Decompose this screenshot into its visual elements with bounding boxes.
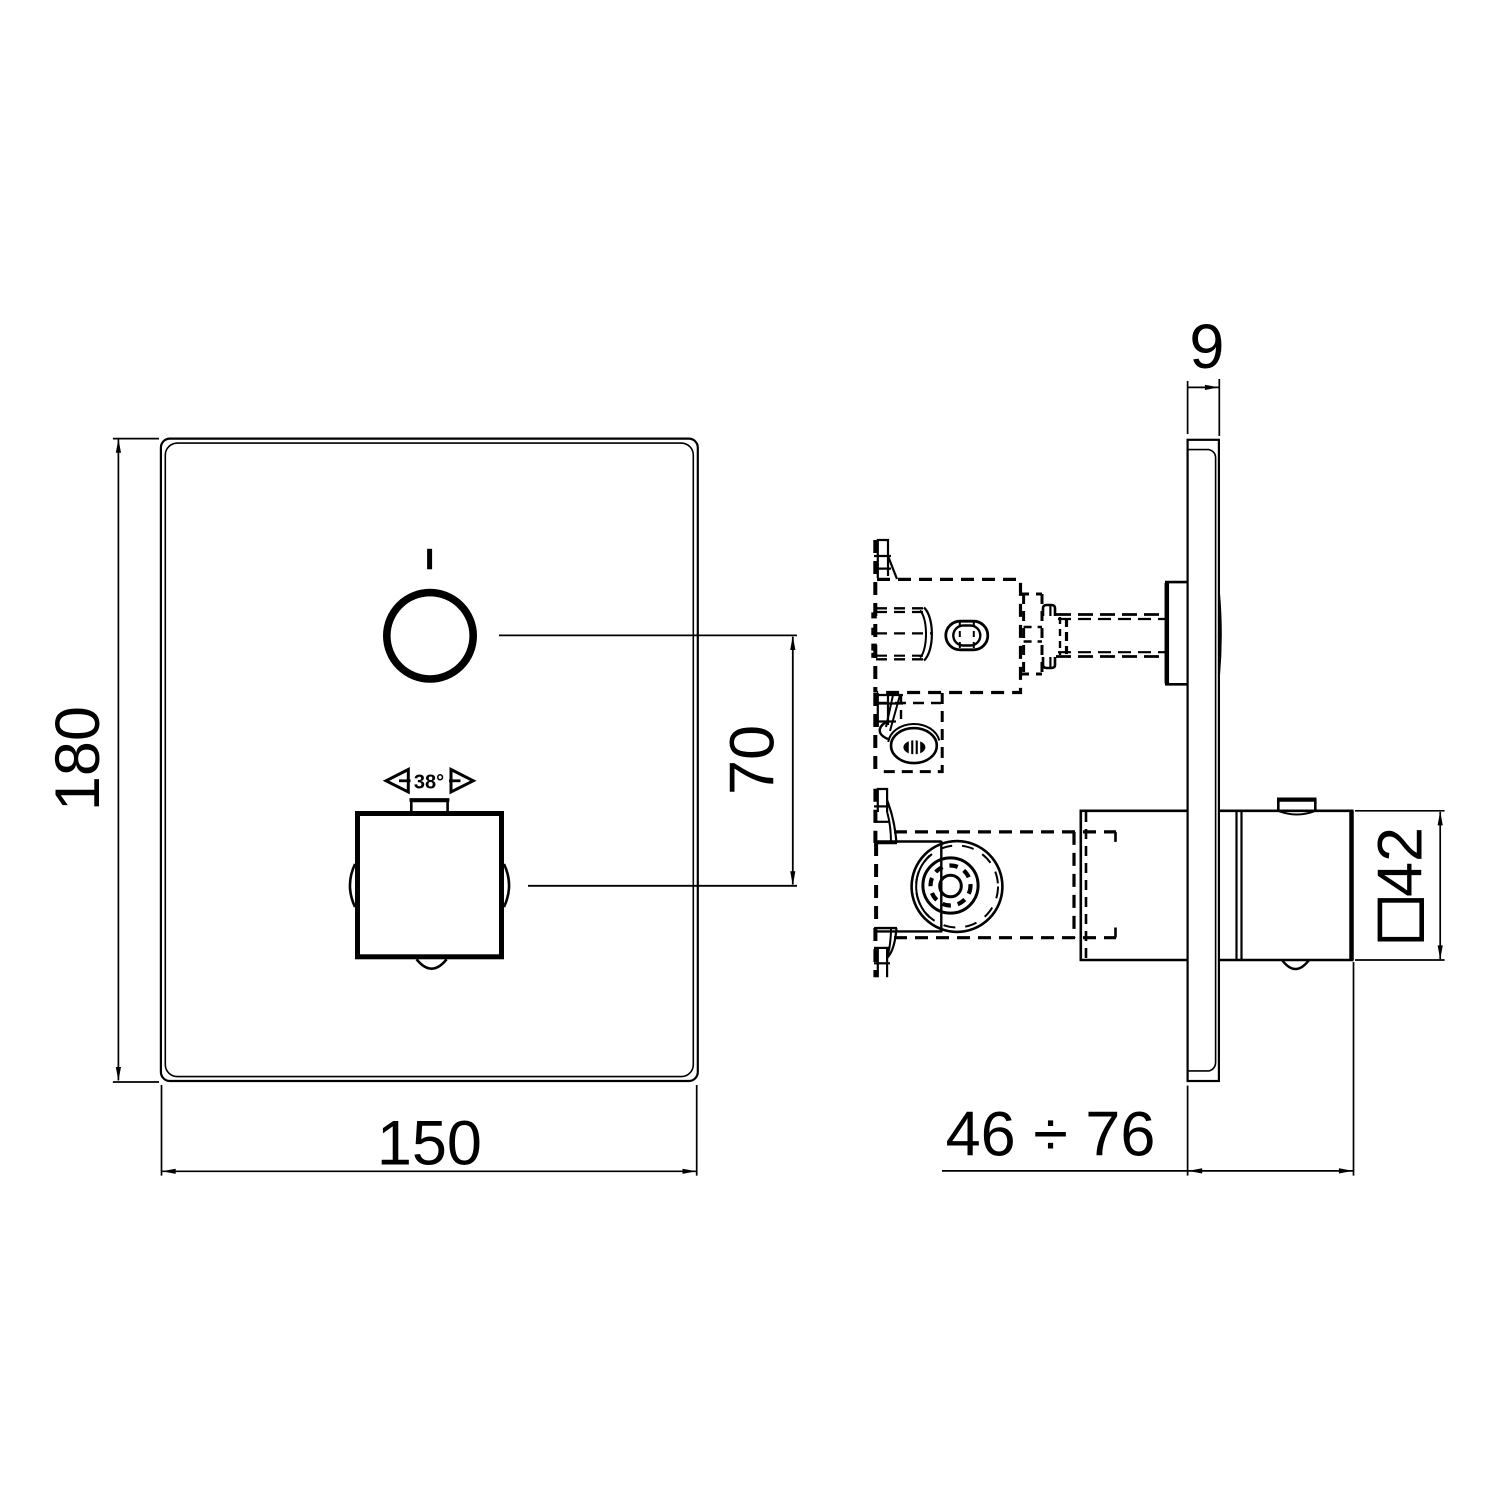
cylinder dome arcs (924, 608, 932, 661)
elbow outlet port (891, 728, 937, 763)
label square42 (1380, 900, 1422, 939)
dimension 180 extension top (113, 438, 159, 440)
svg-text:70: 70 (718, 725, 788, 795)
square knob top tab (411, 801, 447, 811)
wall plate edge inner details (1188, 450, 1216, 1071)
dimension line 150 (162, 1170, 696, 1172)
cartridge housing solid lines (877, 840, 941, 842)
square knob (temperature handle) (358, 814, 502, 957)
handle base double lines (1235, 811, 1237, 960)
upper mounting bracket dashed spine (873, 540, 877, 693)
lower bracket top tab (878, 789, 887, 812)
elbow bracket tab rungs (878, 693, 888, 727)
dimension 42 extension lines (1355, 810, 1445, 812)
svg-text:180: 180 (43, 706, 113, 811)
dimension line 42 (1439, 812, 1441, 959)
38° left arrow (386, 770, 408, 793)
dimension 180 extension bottom (113, 1081, 159, 1083)
dimension line 46-76 (942, 1170, 1354, 1172)
lower bracket dashed spine upper part (873, 789, 877, 843)
square knob bottom bulge (417, 959, 447, 968)
front plate outer outline (161, 439, 698, 1081)
fixing screws edge-on (black blobs) (871, 612, 877, 618)
outlet elbow below upper body (873, 693, 877, 772)
handle safety button tab (1278, 801, 1315, 811)
lower valve body hidden outline (894, 830, 1116, 833)
handle bottom screw bulge (1282, 960, 1309, 969)
lower bracket bottom (875, 927, 897, 929)
lower bracket body side dashed (874, 843, 878, 928)
svg-text:46 ÷ 76: 46 ÷ 76 (946, 1100, 1156, 1170)
dimension 46-76 extension lines (1187, 1086, 1189, 1176)
dimension 150 extension left (161, 1085, 163, 1176)
solid clips (1043, 605, 1055, 616)
38° right arrow (451, 770, 473, 793)
svg-text:42: 42 (1366, 827, 1436, 897)
front plate inner outline (165, 443, 693, 1077)
svg-text:38°: 38° (414, 771, 444, 793)
stepped adapter hidden outline (1024, 594, 1042, 674)
button flange at wall plate (1165, 583, 1170, 684)
leader line from round knob (499, 634, 797, 636)
chrome sleeve solid (1081, 811, 1188, 960)
hidden connection to sleeve (1085, 812, 1088, 959)
dimension line 180 (117, 439, 119, 1080)
hidden cylinder inside upper body (876, 607, 924, 609)
upper valve body hidden outline (877, 579, 1021, 692)
svg-text:9: 9 (1189, 312, 1224, 382)
dimension line 9 (1188, 386, 1220, 388)
wall plate edge-on outline (1188, 440, 1219, 1081)
dimension 9 extension lines (1187, 381, 1189, 434)
oval detail on upper body (946, 621, 988, 650)
handle right face (1349, 811, 1354, 960)
dimension 150 extension right (696, 1085, 698, 1176)
handle behind-plate top/bottom edges (1220, 811, 1354, 960)
leader line from square knob (528, 885, 797, 887)
square knob right bulge (504, 864, 509, 907)
square knob left bulge (350, 864, 355, 907)
elbow hook (880, 721, 888, 739)
thermostat cartridge circles (912, 841, 1003, 932)
hidden shaft to button (1056, 613, 1166, 616)
dimension line 70 (792, 637, 794, 885)
index tick above round knob (427, 549, 432, 570)
svg-text:150: 150 (377, 1108, 482, 1178)
upper bracket top tab (878, 540, 888, 578)
round knob (diverter button) (387, 593, 473, 679)
button face bulge in front of plate (1219, 592, 1221, 677)
